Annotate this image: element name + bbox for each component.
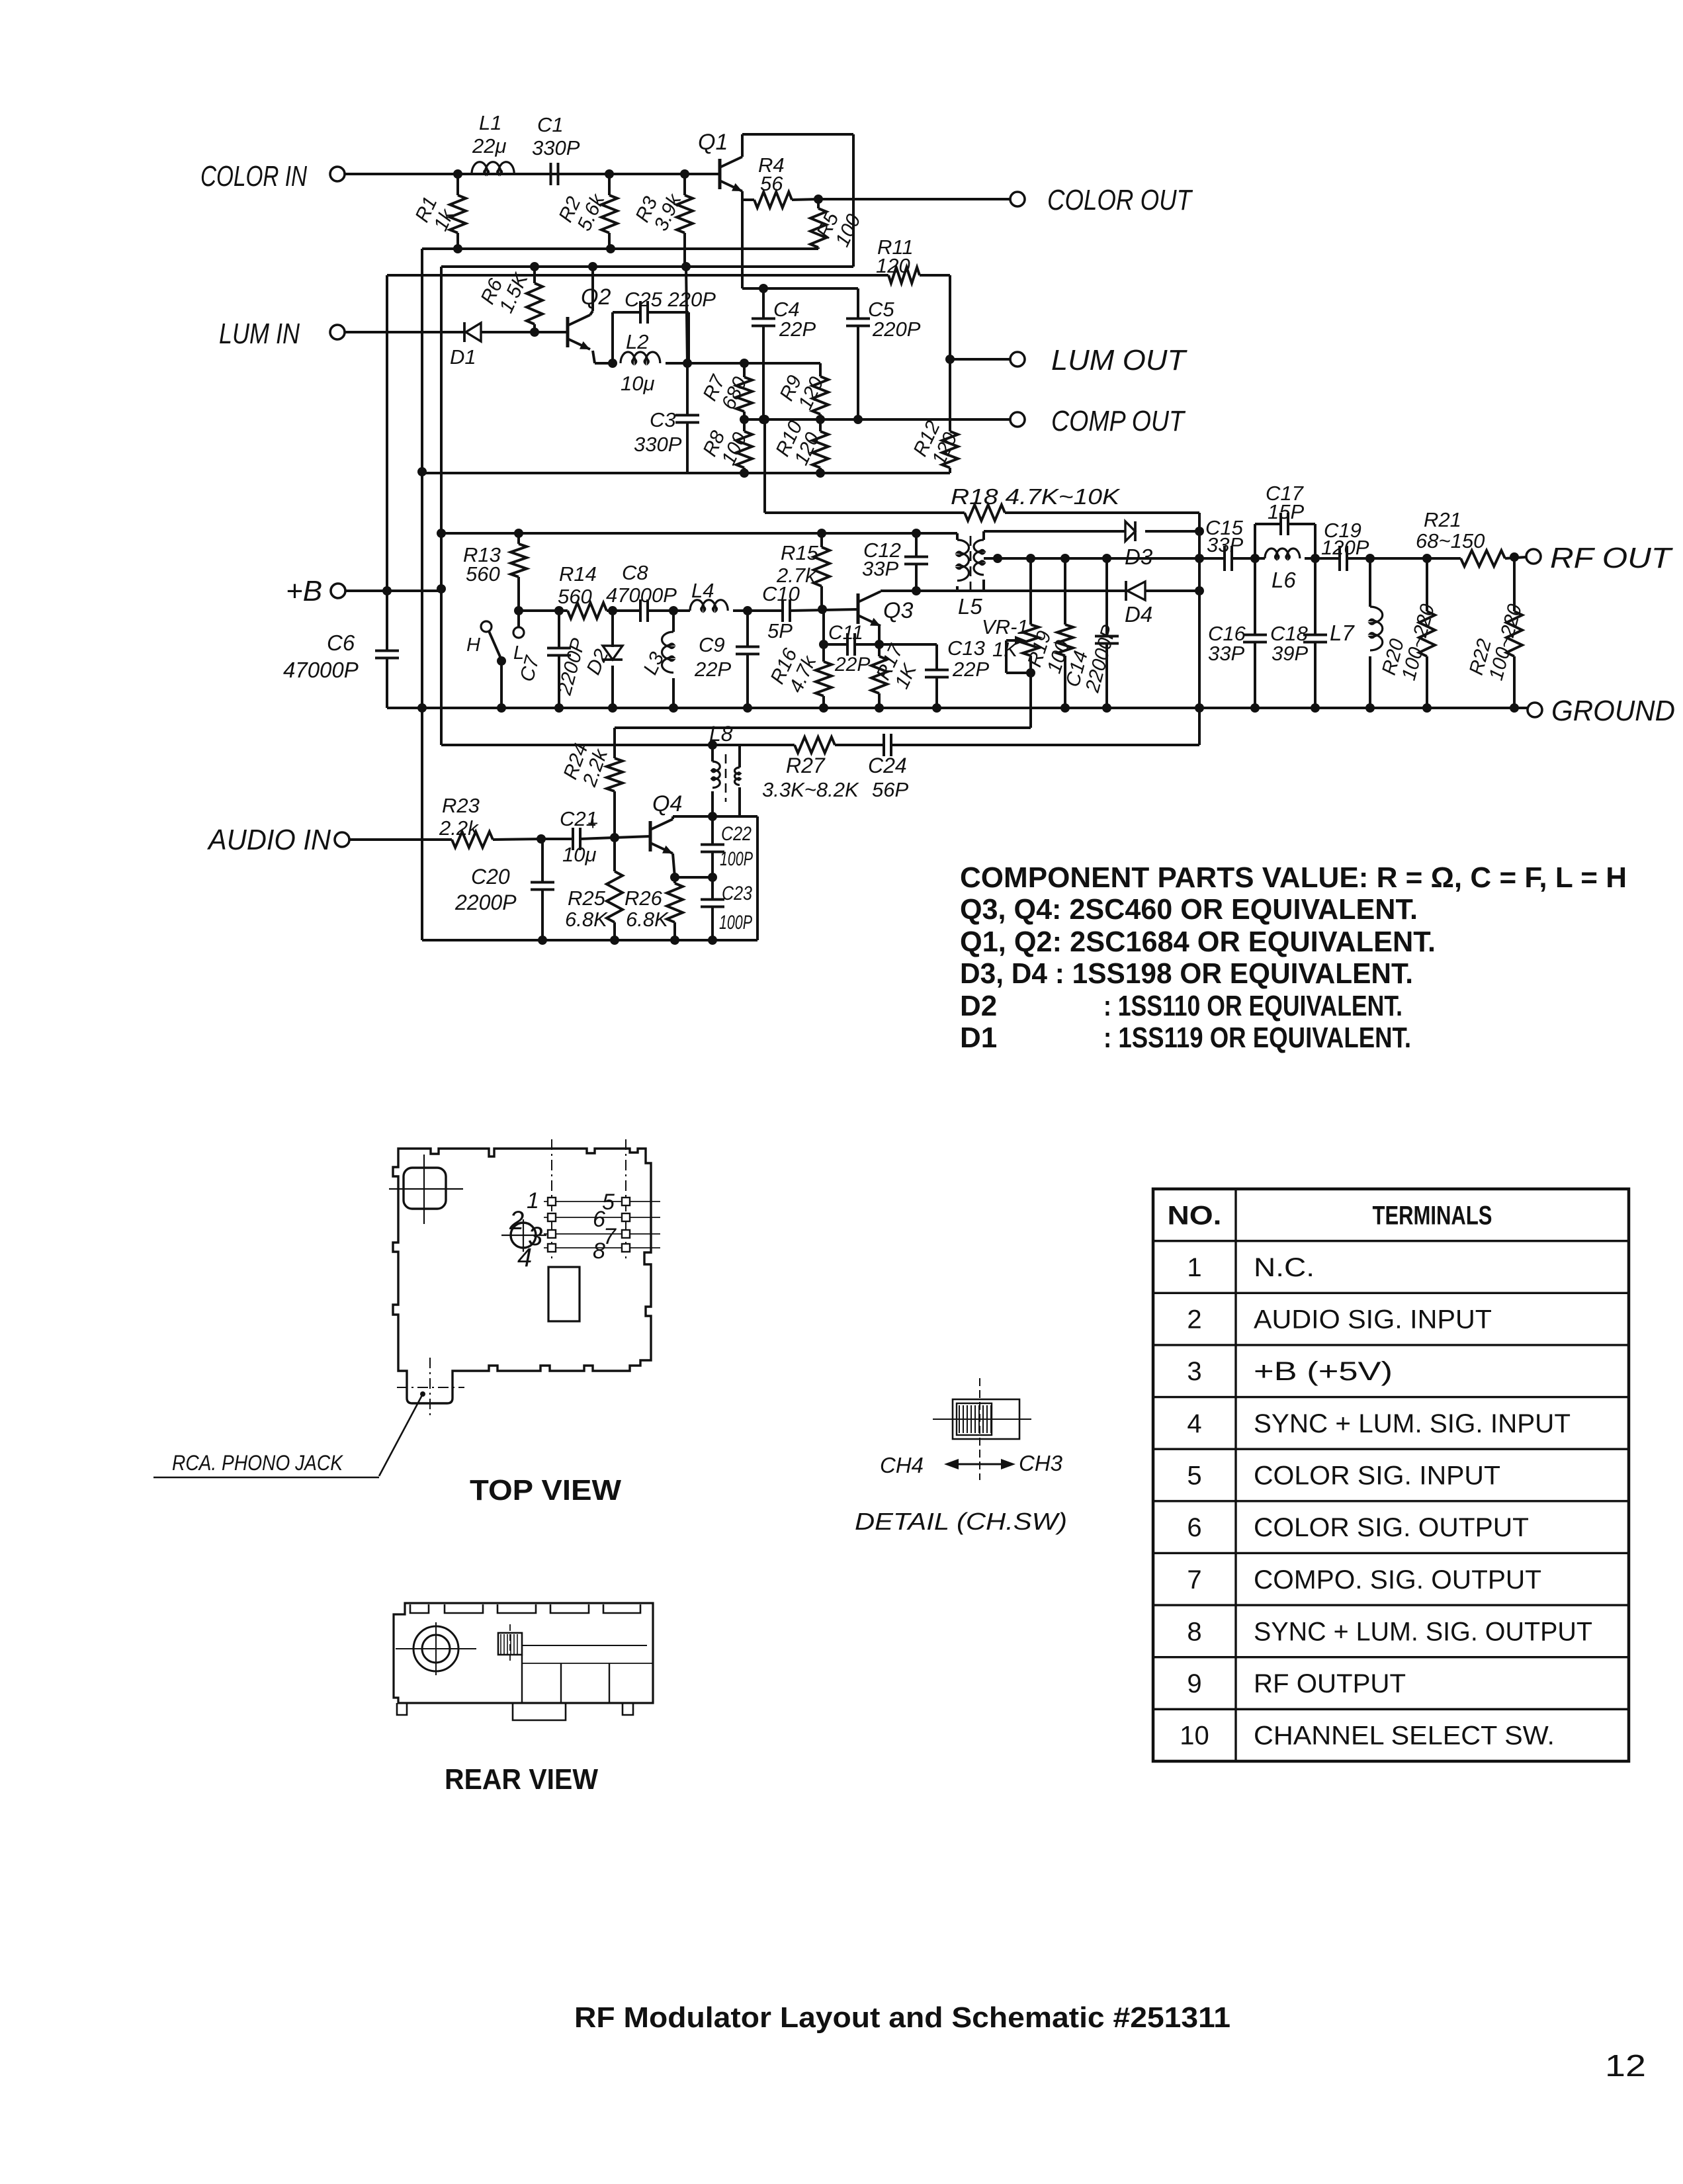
svg-text:RF Modulator Layout and Schema: RF Modulator Layout and Schematic #25131…	[574, 2001, 1230, 2034]
capacitor C22	[701, 816, 753, 877]
svg-text:REAR VIEW: REAR VIEW	[445, 1763, 598, 1796]
transformer L8	[709, 722, 740, 816]
diode D3	[1125, 521, 1204, 569]
capacitor C23	[701, 877, 752, 945]
svg-text:330P: 330P	[634, 433, 682, 456]
svg-text:C25 220P: C25 220P	[625, 288, 716, 311]
svg-text:SYNC + LUM. SIG. OUTPUT: SYNC + LUM. SIG. OUTPUT	[1254, 1617, 1592, 1646]
capacitor C15	[1199, 516, 1260, 571]
wire left ground vertical	[417, 249, 427, 940]
capacitor C12	[862, 529, 928, 595]
svg-text:6.8K: 6.8K	[626, 908, 669, 931]
wire Q4 emitter	[670, 853, 717, 882]
svg-text:15P: 15P	[1268, 500, 1304, 523]
svg-text:LUM OUT: LUM OUT	[1051, 344, 1187, 376]
capacitor C10	[762, 582, 800, 642]
svg-text:68~150: 68~150	[1416, 529, 1485, 552]
svg-text:47000P: 47000P	[283, 658, 359, 682]
rear view channel switch	[498, 1624, 647, 1663]
capacitor C17 loop	[1255, 482, 1315, 558]
wire Q4 collector	[673, 812, 717, 821]
svg-text:Q1, Q2: 2SC1684 OR EQUIVALENT.: Q1, Q2: 2SC1684 OR EQUIVALENT.	[960, 926, 1436, 958]
resistor R21	[1416, 508, 1526, 566]
resistor R14	[558, 562, 607, 619]
resistor R10	[771, 417, 828, 478]
wire D3 line	[984, 530, 1125, 533]
svg-text:Q3, Q4: 2SC460 OR EQUIVALENT.: Q3, Q4: 2SC460 OR EQUIVALENT.	[960, 893, 1418, 926]
resistor R26	[625, 877, 683, 945]
svg-text:+B: +B	[286, 575, 322, 607]
svg-text:Q3: Q3	[883, 598, 913, 623]
wire +B vertical x585	[386, 275, 388, 650]
svg-text:2.7k: 2.7k	[776, 564, 816, 587]
detail channel arrows	[880, 1451, 1063, 1477]
svg-text:D3: D3	[1125, 545, 1153, 569]
svg-text:6: 6	[1187, 1513, 1201, 1542]
svg-text:C22: C22	[721, 823, 752, 845]
svg-text:C1: C1	[537, 113, 564, 136]
wire to R21	[1370, 554, 1461, 563]
svg-text:33P: 33P	[862, 557, 898, 580]
svg-text:4: 4	[517, 1243, 532, 1272]
svg-text:56P: 56P	[872, 778, 908, 801]
terminal COLOR IN	[200, 160, 345, 193]
svg-text:Q1: Q1	[698, 130, 728, 155]
resistor R20	[1378, 558, 1439, 713]
svg-text:LUM IN: LUM IN	[219, 318, 300, 350]
resistor R17	[871, 626, 922, 713]
svg-text:560: 560	[558, 585, 592, 608]
svg-text:2: 2	[509, 1206, 524, 1235]
resistor R19	[1023, 554, 1074, 713]
resistor R8	[699, 419, 752, 478]
svg-text:RCA. PHONO JACK: RCA. PHONO JACK	[172, 1451, 343, 1475]
svg-text:COLOR SIG. INPUT: COLOR SIG. INPUT	[1254, 1462, 1500, 1491]
wire comp bus y634	[744, 418, 1010, 421]
svg-text:C24: C24	[868, 754, 907, 777]
wire y548 to R9	[687, 362, 820, 365]
resistor R12	[909, 417, 961, 473]
resistor R4	[742, 153, 823, 208]
capacitor C14	[1062, 554, 1121, 713]
capacitor C4	[752, 284, 816, 424]
svg-text:CHANNEL SELECT SW.: CHANNEL SELECT SW.	[1254, 1722, 1555, 1751]
svg-text:SYNC + LUM. SIG. INPUT: SYNC + LUM. SIG. INPUT	[1254, 1409, 1571, 1438]
svg-text:C8: C8	[622, 561, 648, 584]
svg-text:D2: D2	[960, 990, 997, 1022]
wire emitter bus y376	[422, 247, 818, 250]
wire L8 top bus y1126	[441, 740, 1199, 750]
resistor R22	[1465, 557, 1526, 713]
svg-text:22P: 22P	[834, 654, 870, 676]
svg-text:R21: R21	[1424, 508, 1461, 531]
terminal RF OUT	[1526, 542, 1673, 574]
svg-text:NO.: NO.	[1168, 1201, 1222, 1230]
terminal LUM IN	[219, 318, 345, 350]
terminal AUDIO IN	[206, 824, 349, 856]
wire audio ground bus	[422, 939, 757, 941]
svg-text:22P: 22P	[694, 658, 731, 681]
svg-text:220P: 220P	[872, 318, 921, 341]
resistor R7	[699, 359, 752, 424]
svg-text:C11: C11	[828, 622, 863, 644]
svg-text:2: 2	[1187, 1305, 1201, 1334]
rear view top slots	[410, 1604, 640, 1613]
svg-text:TERMINALS: TERMINALS	[1373, 1201, 1492, 1230]
svg-text:COLOR OUT: COLOR OUT	[1047, 184, 1193, 216]
svg-text:C13: C13	[947, 636, 985, 660]
wire VR1 to R24 y1100	[615, 726, 1031, 729]
potentiometer VR-1	[982, 554, 1039, 728]
resistor R9	[775, 363, 828, 424]
svg-text:R23: R23	[442, 794, 480, 817]
svg-text:D4: D4	[1125, 602, 1152, 627]
svg-text:3.3K~8.2K: 3.3K~8.2K	[762, 778, 859, 801]
svg-text:RF OUT: RF OUT	[1550, 542, 1673, 574]
svg-text:3: 3	[1187, 1357, 1201, 1386]
wire +B vertical x667	[437, 267, 446, 745]
capacitor C1	[532, 113, 580, 185]
svg-text:2.2k: 2.2k	[439, 816, 479, 840]
svg-text:+B (+5V): +B (+5V)	[1254, 1357, 1393, 1386]
svg-text:COMPONENT PARTS VALUE: R = Ω,: COMPONENT PARTS VALUE: R = Ω, C = F, L =…	[960, 861, 1627, 894]
terminal +B	[286, 575, 345, 607]
wire audio collector loop	[712, 816, 757, 940]
capacitor C9	[694, 606, 759, 713]
svg-text:R15: R15	[781, 541, 819, 564]
wire right box vertical x1813	[1195, 513, 1204, 745]
svg-text:R18 4.7K~10K: R18 4.7K~10K	[951, 484, 1121, 509]
resistor R16	[766, 610, 832, 713]
resistor R1	[411, 169, 466, 253]
svg-text:TOP VIEW: TOP VIEW	[470, 1474, 621, 1507]
rear view rca jack circles	[396, 1622, 476, 1675]
svg-text:22μ: 22μ	[472, 134, 506, 157]
capacitor C5	[846, 288, 921, 424]
svg-text:C20: C20	[471, 865, 510, 889]
wire RF row y923	[519, 609, 858, 611]
top view pin centerlines	[552, 1139, 626, 1261]
top view rca jack centerline	[397, 1358, 464, 1417]
svg-text:33P: 33P	[1207, 533, 1243, 556]
transistor Q4	[615, 791, 682, 853]
capacitor C25 loop	[613, 288, 716, 363]
svg-text:R26: R26	[625, 887, 663, 910]
svg-text:120P: 120P	[1321, 536, 1369, 559]
resistor R15	[776, 529, 830, 614]
svg-text:DETAIL (CH.SW): DETAIL (CH.SW)	[855, 1508, 1067, 1535]
switch CH select H arm	[466, 621, 506, 713]
capacitor C16	[1208, 558, 1267, 713]
svg-text:C9: C9	[699, 633, 725, 656]
svg-text:1K: 1K	[992, 638, 1018, 661]
svg-text:CH3: CH3	[1019, 1451, 1063, 1475]
resistor R5	[810, 199, 865, 250]
svg-text:+: +	[587, 813, 598, 834]
svg-text:L4: L4	[691, 579, 714, 602]
svg-text:8: 8	[593, 1239, 605, 1264]
terminal COMP OUT	[1010, 405, 1186, 437]
transistor Q2	[568, 284, 611, 349]
terminal GROUND	[1528, 695, 1675, 727]
svg-text:R14: R14	[559, 562, 597, 586]
svg-text:10μ: 10μ	[621, 372, 654, 395]
svg-text:D3, D4 : 1SS198 OR EQUIVALENT.: D3, D4 : 1SS198 OR EQUIVALENT.	[960, 957, 1413, 990]
svg-text:D1: D1	[960, 1022, 997, 1054]
text component parts value block	[960, 861, 1627, 1054]
terminal COLOR OUT	[1010, 184, 1193, 216]
terminals table	[1153, 1189, 1629, 1761]
svg-text:C23: C23	[722, 883, 752, 904]
wire RF ground bus y1070	[387, 707, 1528, 709]
svg-text:AUDIO IN: AUDIO IN	[206, 824, 331, 856]
inductor L6	[1255, 548, 1320, 592]
resistor R27	[762, 737, 859, 801]
top view oscillator can circle	[501, 1219, 546, 1252]
text DETAIL (CH.SW)	[855, 1508, 1067, 1535]
inductor L4	[690, 579, 728, 611]
svg-text:Q4: Q4	[652, 791, 682, 816]
svg-text:12: 12	[1605, 2048, 1646, 2083]
svg-text:22P: 22P	[779, 318, 816, 341]
svg-text:AUDIO SIG. INPUT: AUDIO SIG. INPUT	[1254, 1305, 1492, 1334]
capacitor C24	[868, 734, 908, 801]
wire RF top bus y806	[441, 532, 957, 535]
capacitor C21	[541, 807, 615, 866]
leader RCA phono jack	[153, 1394, 423, 1477]
switch CH select L contact	[513, 611, 524, 664]
svg-text:: 1SS110 OR EQUIVALENT.: : 1SS110 OR EQUIVALENT.	[1103, 990, 1402, 1022]
svg-text:56: 56	[760, 172, 783, 195]
svg-text:5P: 5P	[767, 619, 793, 642]
svg-text:330P: 330P	[532, 136, 580, 159]
svg-text:1: 1	[1187, 1253, 1201, 1282]
svg-text:COLOR SIG. OUTPUT: COLOR SIG. OUTPUT	[1254, 1513, 1529, 1542]
svg-text:120: 120	[876, 254, 910, 277]
svg-text:8: 8	[1187, 1617, 1201, 1646]
svg-text:D1: D1	[450, 345, 476, 369]
wire R3-node to L2 node	[686, 267, 687, 363]
wire Q3 collector to L5	[881, 590, 1127, 592]
wire Q2 emitter node	[593, 351, 617, 368]
wire Q3 collector	[879, 591, 882, 591]
svg-text:9: 9	[1187, 1669, 1201, 1698]
inductor L3	[639, 606, 678, 713]
resistor R25	[565, 838, 623, 945]
wire +B feed	[345, 584, 446, 595]
svg-text:L7: L7	[1330, 621, 1355, 645]
svg-text:C6: C6	[327, 631, 355, 655]
capacitor C13	[879, 636, 989, 713]
svg-text:2200P: 2200P	[454, 891, 517, 914]
svg-text:H: H	[466, 634, 480, 656]
top view mounting square	[389, 1155, 463, 1224]
svg-text:L5: L5	[958, 594, 982, 619]
transistor Q1	[698, 130, 742, 191]
capacitor C3	[634, 363, 699, 473]
diode D1	[345, 322, 566, 369]
svg-text:1: 1	[527, 1188, 539, 1213]
svg-text:GROUND: GROUND	[1551, 695, 1675, 727]
svg-text:47000P: 47000P	[606, 584, 677, 607]
svg-text:R27: R27	[786, 754, 826, 777]
capacitor C11	[824, 622, 879, 676]
resistor R23	[349, 794, 546, 848]
svg-text:CH4: CH4	[880, 1453, 924, 1477]
wire D4 line	[984, 590, 1032, 592]
svg-text:10μ: 10μ	[562, 843, 596, 866]
resistor R18	[765, 484, 1199, 521]
svg-text:N.C.: N.C.	[1254, 1253, 1315, 1282]
svg-text:6.8K: 6.8K	[565, 908, 608, 931]
top view module outline	[393, 1149, 651, 1403]
capacitor C20	[454, 839, 554, 945]
terminal LUM OUT	[950, 344, 1187, 376]
diode D4	[1125, 581, 1204, 627]
capacitor C19	[1319, 519, 1375, 571]
svg-text:VR-1: VR-1	[982, 615, 1029, 638]
capacitor C7	[516, 606, 589, 713]
capacitor C6	[283, 631, 399, 708]
text caption	[574, 2001, 1230, 2034]
capacitor C18	[1270, 558, 1327, 713]
svg-text:: 1SS119 OR EQUIVALENT.: : 1SS119 OR EQUIVALENT.	[1103, 1022, 1411, 1054]
capacitor C8	[606, 561, 677, 622]
svg-text:L6: L6	[1272, 568, 1296, 592]
wire detector node y844	[998, 554, 1204, 563]
inductor L7	[1330, 558, 1383, 713]
rear view feet	[397, 1703, 633, 1720]
resistor R13	[463, 529, 527, 615]
svg-text:39P: 39P	[1272, 642, 1308, 665]
resistor R6	[476, 262, 542, 337]
wire q1-emitter to C4/C5	[742, 200, 858, 288]
wire ground bus y715	[422, 472, 950, 474]
svg-text:10: 10	[1180, 1722, 1209, 1751]
svg-text:Q2: Q2	[581, 284, 611, 310]
svg-text:560: 560	[466, 562, 500, 586]
diode D2	[582, 606, 623, 713]
svg-text:COMPO. SIG. OUTPUT: COMPO. SIG. OUTPUT	[1254, 1565, 1541, 1594]
transformer L5	[957, 531, 1002, 619]
top view channel switch rect	[548, 1267, 580, 1321]
wire R11 to outputs vertical	[945, 275, 955, 431]
svg-text:7: 7	[1187, 1565, 1201, 1594]
svg-text:COLOR IN: COLOR IN	[200, 160, 307, 193]
transistor Q3	[858, 591, 913, 626]
svg-text:22P: 22P	[952, 658, 989, 681]
rear view outline	[394, 1603, 653, 1703]
svg-text:L2: L2	[626, 330, 648, 353]
top view pins rows	[544, 1198, 660, 1252]
inductor L1	[472, 111, 514, 174]
svg-text:L8: L8	[709, 722, 733, 746]
svg-text:7: 7	[603, 1224, 617, 1249]
svg-text:5: 5	[1187, 1462, 1201, 1491]
svg-text:L1: L1	[479, 111, 501, 134]
svg-text:C3: C3	[650, 408, 676, 431]
svg-text:R25: R25	[568, 887, 606, 910]
wire lum bus y416	[387, 274, 950, 277]
top view pin numbers	[509, 1188, 617, 1272]
text page number	[1605, 2048, 1646, 2083]
wire to COLOR OUT	[818, 198, 1010, 200]
rear view inner lines	[522, 1655, 653, 1703]
wire Q1 collector loop	[742, 134, 853, 267]
svg-text:100P: 100P	[719, 912, 752, 934]
resistor R24	[560, 728, 623, 842]
inductor L2	[621, 330, 692, 395]
wire color box bottom y403	[441, 262, 853, 271]
svg-text:100P: 100P	[720, 848, 753, 870]
detail channel switch symbol	[933, 1378, 1031, 1480]
svg-text:33P: 33P	[1208, 642, 1244, 665]
wire Q2 collector	[590, 267, 593, 315]
wire color-in to Q1 base	[345, 173, 718, 175]
svg-text:4: 4	[1187, 1409, 1201, 1438]
wire R18 riser	[760, 415, 769, 513]
resistor R3	[631, 169, 693, 271]
text TOP VIEW	[470, 1474, 621, 1507]
resistor R2	[554, 169, 617, 253]
svg-text:RF OUTPUT: RF OUTPUT	[1254, 1669, 1406, 1698]
text REAR VIEW	[445, 1763, 598, 1796]
svg-text:COMP OUT: COMP OUT	[1051, 405, 1186, 437]
resistor R11	[876, 236, 920, 283]
